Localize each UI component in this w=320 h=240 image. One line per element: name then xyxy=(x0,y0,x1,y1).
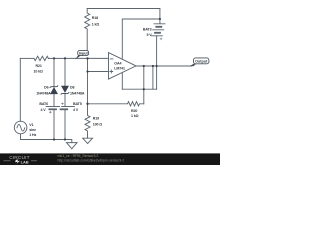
resistor R18 xyxy=(85,9,90,52)
svg-text:http://circuitlab.com/c/8ke2vd: http://circuitlab.com/c/8ke2vd/rpm-senso… xyxy=(58,159,125,163)
svg-text:LAB: LAB xyxy=(21,159,29,164)
op-amp U1 OA4 triangle xyxy=(109,53,137,80)
svg-text:9 V: 9 V xyxy=(146,33,152,37)
resistor R19 xyxy=(85,104,90,138)
battery BAT6 xyxy=(46,106,59,108)
svg-text:sine: sine xyxy=(29,128,36,132)
node feedback xyxy=(143,88,145,90)
svg-text:R21: R21 xyxy=(36,64,42,68)
voltage source V1 xyxy=(14,121,27,134)
node rail BAT6 xyxy=(53,138,55,140)
wire plus input xyxy=(88,71,109,73)
wire D6 to BAT6 xyxy=(53,94,55,106)
svg-text:R20: R20 xyxy=(131,109,137,113)
svg-text:R19: R19 xyxy=(93,117,99,121)
svg-text:1 kΩ: 1 kΩ xyxy=(92,22,100,26)
node input flag anchor xyxy=(86,57,88,59)
svg-text:BAT5: BAT5 xyxy=(73,102,82,106)
svg-text:4 V: 4 V xyxy=(73,108,79,112)
node output B xyxy=(152,65,154,67)
op-amp V- pin stub xyxy=(121,73,123,90)
svg-text:10 kΩ: 10 kΩ xyxy=(34,70,44,74)
svg-text:D8: D8 xyxy=(70,86,74,90)
battery BAT3 xyxy=(151,9,165,36)
svg-text:Output: Output xyxy=(195,59,208,63)
battery BAT5 xyxy=(62,106,75,108)
node battery to output xyxy=(156,65,158,67)
svg-text:1N4748A: 1N4748A xyxy=(70,91,85,95)
wire output xyxy=(136,65,191,67)
svg-text:OA4: OA4 xyxy=(114,61,121,65)
node plus input xyxy=(86,70,88,72)
wire battery V+ to op-amp xyxy=(122,19,160,59)
node rail BAT5 xyxy=(64,138,66,140)
svg-text:1 kΩ: 1 kΩ xyxy=(131,114,139,118)
wire D8 top lead xyxy=(64,58,66,85)
wire D6 top lead xyxy=(53,58,55,86)
wire top rail xyxy=(87,8,160,10)
ground (R19) xyxy=(83,138,93,143)
node column x=87.5 vertical xyxy=(87,58,89,103)
flag Input xyxy=(75,51,88,60)
wire feedback horizontal xyxy=(122,88,156,90)
node D8 top xyxy=(64,57,66,59)
resistor R21 xyxy=(34,56,48,60)
wire BAT6 bottom xyxy=(53,109,55,139)
wire BAT5 bottom xyxy=(64,109,66,139)
ground (bottom rail) xyxy=(67,143,78,149)
svg-text:4 V: 4 V xyxy=(41,108,47,112)
svg-text:BAT6: BAT6 xyxy=(39,102,48,106)
wire R21 to op-amp minus xyxy=(48,57,108,59)
wire V1 bottom to rail xyxy=(21,134,72,143)
wire V1 vertical xyxy=(19,58,21,121)
svg-text:V1: V1 xyxy=(29,123,33,127)
flag Output xyxy=(190,58,209,67)
svg-text:BAT3: BAT3 xyxy=(143,27,152,31)
svg-text:R18: R18 xyxy=(92,16,98,20)
svg-text:100 Ω: 100 Ω xyxy=(93,123,103,127)
wire feedback vertical A xyxy=(143,66,145,104)
footer bar xyxy=(0,153,220,165)
junction dots xyxy=(53,18,161,141)
diode D6 xyxy=(50,87,58,94)
node D6 top xyxy=(53,57,55,59)
battery polarity marks xyxy=(49,38,162,113)
wire BAT3 bottom through output node to R20 xyxy=(156,36,158,89)
node wire2 battery xyxy=(159,18,161,20)
resistor R20 xyxy=(88,102,144,106)
node R20 left xyxy=(86,103,88,105)
diode D8 xyxy=(61,86,69,93)
svg-text:D6: D6 xyxy=(44,86,48,90)
wire feedback vertical B xyxy=(152,66,154,89)
svg-text:LM741: LM741 xyxy=(114,66,125,70)
wire D8 to BAT5 xyxy=(64,94,66,107)
svg-text:1 Hz: 1 Hz xyxy=(29,133,36,137)
wire input net horizontal xyxy=(20,57,34,59)
svg-text:1N4748A: 1N4748A xyxy=(36,91,51,95)
svg-text:mk1_ce : RPM_Sensor3.2: mk1_ce : RPM_Sensor3.2 xyxy=(58,154,99,158)
node output A xyxy=(143,65,145,67)
svg-text:Input: Input xyxy=(79,52,89,56)
